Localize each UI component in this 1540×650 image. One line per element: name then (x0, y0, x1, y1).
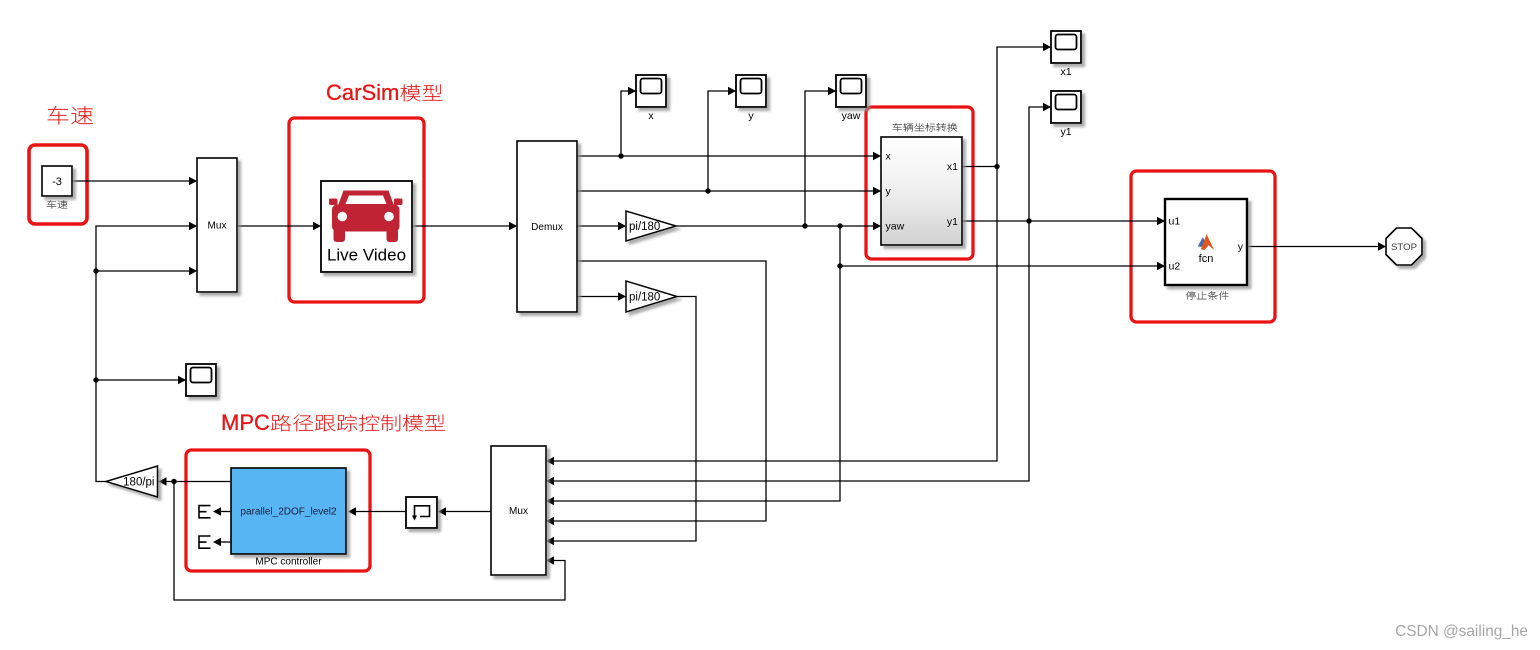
wire fcn y out to STOP (1247, 246, 1385, 248)
wire Mux out to CarSim (237, 225, 320, 227)
svg-text:Mux: Mux (208, 221, 227, 232)
annotation box around stop-condition function (1131, 171, 1275, 322)
wire to scope y (708, 91, 735, 191)
label 车速 under constant (47, 200, 68, 208)
annotation box around CarSim block (289, 118, 424, 302)
CarSim Live Video block (321, 181, 412, 272)
wire junction up to scope y1 (1029, 107, 1050, 221)
wire MPC out3 to terminator2 (220, 541, 231, 543)
scope y1 (1051, 91, 1081, 123)
svg-text:x1: x1 (1060, 66, 1071, 78)
svg-text:x: x (886, 151, 892, 163)
svg-text:Demux: Demux (531, 222, 563, 233)
svg-text:u2: u2 (1169, 261, 1181, 273)
svg-text:fcn: fcn (1199, 253, 1214, 265)
STOP block (1386, 228, 1422, 265)
svg-text:180/pi: 180/pi (123, 476, 154, 488)
wire Demux out5 to gain2 (577, 296, 625, 298)
wire memory out to MPC input (355, 511, 406, 513)
wire yaw branch to u2 (840, 265, 1164, 267)
svg-text:y: y (886, 186, 892, 198)
scope y (736, 75, 766, 107)
svg-text:Live Video: Live Video (327, 246, 406, 265)
wire gain2 to Mux2 in5 (547, 297, 696, 542)
constant block -3 (车速) (42, 166, 72, 196)
svg-text:CSDN @sailing_he: CSDN @sailing_he (1395, 623, 1528, 640)
svg-text:pi/180: pi/180 (629, 291, 660, 303)
label 停止条件 under fcn block (1186, 291, 1229, 299)
scope x (636, 75, 666, 107)
Mux block (bottom, flipped) (491, 446, 546, 575)
svg-text:x: x (648, 110, 654, 122)
svg-text:pi/180: pi/180 (629, 221, 660, 233)
svg-text:-3: -3 (52, 176, 62, 188)
gain pi/180 (lower) (626, 281, 677, 312)
wire constant to Mux in1 (72, 180, 196, 182)
wire to scope yaw (805, 91, 835, 226)
wire y1 out to u1 (962, 220, 1164, 222)
svg-text:Mux: Mux (509, 506, 528, 517)
wire Mux2 out to memory (445, 511, 491, 513)
svg-text:parallel_2DOF_level2: parallel_2DOF_level2 (240, 507, 337, 518)
terminator 2 (199, 535, 211, 549)
gain pi/180 (upper) (626, 211, 676, 241)
wire yaw branch down to Mux2 in3 (547, 226, 840, 501)
svg-text:y1: y1 (1060, 126, 1071, 138)
wire to scope x (621, 91, 635, 156)
Mux block (left) (197, 158, 237, 292)
wire Demux out4 to Mux2 in4 (547, 261, 766, 521)
wire MPC out1 to gain3 and feedback (159, 481, 232, 483)
wire Demux out2 to y port (577, 190, 880, 192)
subsystem 车辆坐标转换 block (881, 137, 962, 245)
svg-text:STOP: STOP (1391, 242, 1417, 253)
wire x1 out to junction (962, 166, 997, 168)
terminator 1 (199, 505, 211, 519)
annotation box around coordinate-transform subsystem (866, 107, 973, 259)
Demux block (517, 141, 577, 312)
wire MPC out2 to terminator1 (220, 511, 231, 513)
wire gain1 to yaw port (676, 225, 880, 227)
svg-text:yaw: yaw (842, 110, 861, 122)
svg-text:y: y (1238, 241, 1244, 253)
svg-text:MPC controller: MPC controller (255, 557, 322, 568)
annotation text 车速 (red) (48, 106, 93, 124)
gain 180/pi (left-pointing) (106, 466, 158, 497)
wire junction down to Mux2 in2 (547, 221, 1029, 481)
svg-text:x1: x1 (947, 161, 958, 173)
wire branch to speed scope (96, 379, 185, 381)
annotation box around MPC controller (186, 450, 370, 571)
svg-text:MPC: MPC (221, 410, 270, 435)
wire junction down to Mux2 in1 (547, 167, 997, 462)
scope yaw (836, 75, 866, 107)
annotation box around speed constant (29, 145, 87, 224)
wire feedback trunk up to Mux in2 (96, 226, 196, 482)
memory block (406, 497, 437, 528)
svg-text:y: y (748, 110, 754, 122)
MPC controller block (231, 468, 346, 554)
scope (speed, unlabeled) (186, 364, 216, 396)
wire junction up to scope x1 (997, 47, 1050, 167)
svg-text:u1: u1 (1169, 216, 1181, 228)
scope x1 (1051, 31, 1081, 63)
wire Demux out1 to x port (577, 155, 880, 157)
svg-text:y1: y1 (947, 216, 958, 228)
wire branch to Mux in3 (96, 270, 196, 272)
MATLAB function block fcn (停止条件) (1165, 199, 1247, 285)
label 车辆坐标转换 (subsystem title) (893, 123, 958, 131)
svg-text:CarSim: CarSim (326, 80, 399, 105)
wire Demux out3 to gain1 (577, 225, 625, 227)
svg-text:yaw: yaw (886, 221, 905, 233)
wire CarSim out to Demux (412, 225, 516, 227)
